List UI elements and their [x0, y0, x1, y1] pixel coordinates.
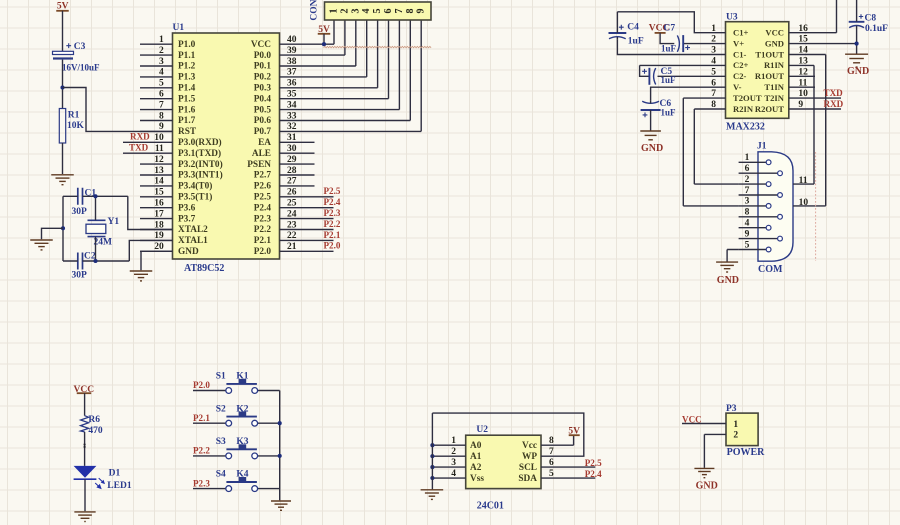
svg-text:6: 6 [745, 164, 750, 174]
svg-text:5: 5 [372, 9, 383, 14]
svg-text:7: 7 [745, 186, 750, 196]
svg-text:K4: K4 [236, 470, 248, 480]
svg-text:0.1uF: 0.1uF [865, 24, 888, 34]
svg-text:GND: GND [847, 66, 869, 77]
svg-text:C1+: C1+ [733, 28, 749, 38]
svg-text:10K: 10K [67, 121, 85, 131]
svg-text:VCC: VCC [682, 414, 702, 424]
svg-text:8: 8 [405, 9, 416, 14]
svg-text:1: 1 [329, 9, 340, 14]
svg-text:P3.2(INT0): P3.2(INT0) [178, 159, 223, 170]
svg-text:7: 7 [394, 9, 405, 14]
svg-text:1: 1 [451, 436, 456, 446]
svg-text:9: 9 [416, 9, 427, 14]
svg-text:XTAL1: XTAL1 [178, 236, 208, 246]
svg-text:P3: P3 [726, 404, 737, 414]
svg-text:GND: GND [717, 275, 739, 286]
svg-text:5V: 5V [57, 1, 69, 11]
svg-text:P2.2: P2.2 [324, 219, 341, 229]
svg-text:TXD: TXD [824, 88, 844, 98]
svg-text:A0: A0 [470, 441, 482, 451]
svg-text:P0.7: P0.7 [254, 127, 272, 137]
svg-text:P2.3: P2.3 [324, 208, 341, 218]
svg-text:P2.4: P2.4 [324, 197, 341, 207]
svg-text:POWER: POWER [727, 447, 766, 458]
svg-text:6: 6 [159, 90, 164, 100]
svg-text:36: 36 [287, 79, 297, 89]
svg-text:29: 29 [287, 155, 297, 165]
svg-text:3: 3 [745, 197, 750, 207]
svg-text:EA: EA [258, 138, 271, 148]
svg-text:P3.3(INT1): P3.3(INT1) [178, 170, 223, 181]
svg-text:1uF: 1uF [661, 75, 677, 85]
svg-text:S4: S4 [216, 470, 226, 480]
svg-text:P0.1: P0.1 [254, 62, 272, 72]
svg-text:PSEN: PSEN [247, 160, 271, 170]
svg-text:A2: A2 [470, 463, 482, 473]
svg-text:P2.4: P2.4 [254, 203, 272, 213]
svg-text:XTAL2: XTAL2 [178, 225, 208, 235]
svg-text:RXD: RXD [824, 99, 844, 109]
svg-text:Vcc: Vcc [522, 441, 537, 451]
svg-text:2: 2 [745, 175, 750, 185]
svg-text:VCC: VCC [251, 40, 271, 50]
svg-text:GND: GND [178, 247, 199, 257]
svg-text:2: 2 [339, 9, 350, 14]
svg-text:TXD: TXD [129, 142, 149, 152]
svg-text:C7: C7 [664, 23, 676, 33]
svg-text:MAX232: MAX232 [726, 122, 765, 133]
svg-text:4: 4 [745, 219, 750, 229]
svg-text:6: 6 [383, 9, 394, 14]
svg-text:RXD: RXD [130, 132, 150, 142]
svg-text:P2.0: P2.0 [254, 247, 272, 257]
svg-text:4: 4 [361, 9, 372, 14]
svg-text:1: 1 [745, 153, 750, 163]
svg-text:R1IN: R1IN [764, 60, 785, 70]
svg-text:U1: U1 [173, 23, 185, 33]
svg-text:R2OUT: R2OUT [755, 104, 784, 114]
svg-text:Vss: Vss [470, 474, 484, 484]
svg-text:8: 8 [159, 111, 164, 121]
svg-text:SDA: SDA [518, 474, 537, 484]
svg-text:C8: C8 [865, 14, 877, 24]
svg-text:7: 7 [159, 100, 164, 110]
svg-text:37: 37 [287, 68, 297, 78]
svg-text:10: 10 [799, 198, 809, 208]
svg-text:2: 2 [451, 447, 456, 457]
svg-text:C4: C4 [627, 23, 639, 33]
svg-text:C1-: C1- [733, 49, 747, 59]
svg-text:P3.0(RXD): P3.0(RXD) [178, 137, 222, 148]
svg-text:Y1: Y1 [108, 217, 120, 227]
svg-text:5: 5 [745, 240, 750, 250]
svg-text:P3.4(T0): P3.4(T0) [178, 181, 212, 192]
svg-text:3: 3 [159, 57, 164, 67]
svg-text:1: 1 [159, 35, 164, 45]
svg-text:U3: U3 [726, 12, 738, 22]
svg-text:P2.1: P2.1 [254, 236, 272, 246]
svg-text:2: 2 [733, 431, 738, 441]
svg-text:P2.1: P2.1 [324, 230, 341, 240]
svg-text:8: 8 [745, 208, 750, 218]
svg-text:WP: WP [522, 452, 537, 462]
svg-text:P3.7: P3.7 [178, 214, 196, 224]
svg-text:P3.5(T1): P3.5(T1) [178, 192, 212, 203]
svg-text:R6: R6 [88, 415, 100, 425]
svg-text:T1OUT: T1OUT [755, 49, 784, 59]
svg-text:P2.6: P2.6 [254, 182, 272, 192]
svg-text:1: 1 [733, 420, 738, 430]
svg-text:SCL: SCL [519, 463, 537, 473]
svg-text:C2+: C2+ [733, 60, 749, 70]
svg-text:RST: RST [178, 127, 197, 137]
svg-text:9: 9 [745, 229, 750, 239]
svg-text:R1: R1 [68, 111, 80, 121]
svg-text:5: 5 [159, 79, 164, 89]
svg-text:P2.5: P2.5 [585, 458, 602, 468]
svg-text:P2.4: P2.4 [585, 469, 602, 479]
svg-text:GND: GND [641, 143, 663, 154]
svg-text:470: 470 [88, 426, 103, 436]
svg-text:1uF: 1uF [661, 43, 677, 53]
svg-text:4: 4 [451, 469, 456, 479]
svg-text:P1.0: P1.0 [178, 40, 196, 50]
svg-text:D1: D1 [109, 468, 121, 478]
svg-text:LED1: LED1 [107, 481, 132, 491]
svg-text:24M: 24M [94, 238, 113, 248]
svg-text:GND: GND [765, 38, 784, 48]
svg-text:ALE: ALE [252, 149, 271, 159]
svg-text:1uF: 1uF [628, 37, 644, 47]
svg-text:10: 10 [154, 133, 164, 143]
svg-text:30P: 30P [72, 271, 88, 281]
svg-text:P2.2: P2.2 [193, 446, 210, 456]
svg-text:P0.5: P0.5 [254, 105, 272, 115]
svg-text:14: 14 [154, 177, 164, 187]
svg-text:13: 13 [154, 166, 164, 176]
svg-text:V+: V+ [733, 38, 744, 48]
svg-text:P1.1: P1.1 [178, 51, 196, 61]
svg-text:T2IN: T2IN [764, 93, 784, 103]
svg-text:11: 11 [799, 176, 808, 186]
svg-text:P3.1(TXD): P3.1(TXD) [178, 148, 221, 159]
svg-text:P2.0: P2.0 [193, 380, 210, 390]
svg-text:P1.4: P1.4 [178, 84, 196, 94]
svg-text:17: 17 [154, 209, 164, 219]
svg-text:R1OUT: R1OUT [755, 71, 784, 81]
svg-text:C2-: C2- [733, 71, 747, 81]
svg-text:P1.2: P1.2 [178, 62, 196, 72]
svg-text:4: 4 [159, 68, 164, 78]
svg-text:P2.3: P2.3 [193, 478, 210, 488]
svg-text:P2.7: P2.7 [254, 171, 272, 181]
svg-text:K3: K3 [236, 437, 248, 447]
svg-text:P0.2: P0.2 [254, 73, 272, 83]
svg-text:VCC: VCC [765, 28, 784, 38]
svg-text:P1.3: P1.3 [178, 73, 196, 83]
svg-text:P2.5: P2.5 [324, 186, 341, 196]
svg-text:AT89C52: AT89C52 [184, 263, 224, 274]
svg-text:P0.4: P0.4 [254, 94, 272, 104]
svg-text:1uF: 1uF [661, 108, 677, 118]
svg-text:24: 24 [287, 209, 297, 219]
svg-text:P0.0: P0.0 [254, 51, 272, 61]
svg-text:30P: 30P [72, 207, 88, 217]
svg-text:24C01: 24C01 [477, 500, 504, 511]
svg-text:V-: V- [733, 82, 742, 92]
svg-text:COM: COM [758, 264, 783, 275]
svg-text:T2OUT: T2OUT [733, 93, 762, 103]
svg-text:R2IN: R2IN [733, 104, 754, 114]
svg-text:3: 3 [350, 9, 361, 14]
svg-text:3: 3 [451, 458, 456, 468]
svg-text:P2.1: P2.1 [193, 413, 210, 423]
svg-text:15: 15 [154, 188, 164, 198]
svg-text:P2.5: P2.5 [254, 193, 272, 203]
svg-text:2: 2 [159, 46, 164, 56]
svg-text:P2.3: P2.3 [254, 214, 272, 224]
svg-text:K1: K1 [236, 372, 248, 382]
svg-text:P2.2: P2.2 [254, 225, 272, 235]
svg-text:T1IN: T1IN [764, 82, 784, 92]
svg-text:16V/10uF: 16V/10uF [62, 62, 100, 72]
svg-text:11: 11 [155, 144, 164, 154]
svg-text:16: 16 [154, 199, 164, 209]
svg-text:P0.6: P0.6 [254, 116, 272, 126]
svg-text:S1: S1 [216, 372, 226, 382]
svg-text:P1.6: P1.6 [178, 105, 196, 115]
svg-text:A1: A1 [470, 452, 482, 462]
svg-text:S3: S3 [216, 437, 226, 447]
svg-text:S2: S2 [216, 404, 226, 414]
svg-text:P2.0: P2.0 [324, 241, 341, 251]
svg-text:U2: U2 [476, 425, 488, 435]
svg-text:P1.5: P1.5 [178, 94, 196, 104]
svg-text:C3: C3 [74, 42, 86, 52]
svg-text:P3.6: P3.6 [178, 203, 196, 213]
svg-text:P1.7: P1.7 [178, 116, 196, 126]
svg-text:J1: J1 [757, 142, 767, 152]
svg-text:K2: K2 [236, 404, 248, 414]
svg-text:P0.3: P0.3 [254, 84, 272, 94]
svg-text:CON: CON [310, 0, 320, 21]
svg-text:GND: GND [696, 480, 718, 491]
svg-text:12: 12 [154, 155, 164, 165]
